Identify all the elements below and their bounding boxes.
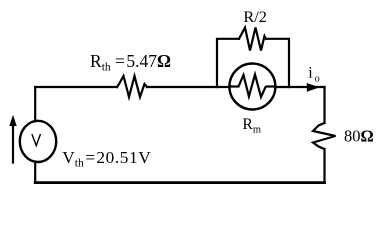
label V inside source circle [32,134,41,146]
voltage source V circle [20,121,56,162]
meter R_m circle [229,64,275,110]
wire right vertical upper [323,87,325,123]
wire right vertical lower [323,149,325,183]
svg-text:80Ω: 80Ω [344,127,374,146]
arrowhead of source polarity arrow [10,117,16,126]
wire bottom horizontal [35,181,324,184]
wire top middle horizontal [147,86,230,88]
wire left vertical lower [34,162,36,183]
resistor R_th [117,76,147,97]
svg-text:R/2: R/2 [243,7,267,26]
svg-text:io: io [308,65,319,85]
resistor 80ohm [313,123,336,149]
resistor inside meter [230,75,276,98]
arrowhead current io [307,84,318,91]
svg-text:Vth=20.51V: Vth=20.51V [62,148,151,170]
svg-text:Rm: Rm [243,116,262,136]
arrow line of source polarity [12,124,14,163]
wire R/2 branch right vertical [266,39,289,87]
wire R/2 branch left vertical [217,39,239,87]
wire top right horizontal [275,86,324,88]
svg-text:Rth =5.47Ω: Rth =5.47Ω [90,51,171,74]
wire left vertical upper [34,87,36,121]
resistor R/2 [239,28,266,51]
wire top left horizontal [35,86,117,88]
